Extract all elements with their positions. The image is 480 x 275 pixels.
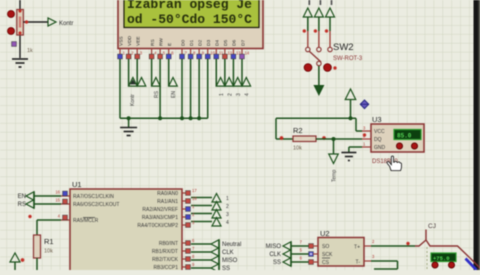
svg-text:RA6/OSC2/CLKOUT: RA6/OSC2/CLKOUT: [73, 202, 119, 208]
svg-text:RA2/AN2/VREF: RA2/AN2/VREF: [142, 207, 178, 213]
svg-text:16: 16: [55, 190, 60, 195]
svg-text:SW-ROT-3: SW-ROT-3: [333, 56, 363, 62]
svg-text:2: 2: [226, 204, 229, 210]
svg-text:VEE: VEE: [136, 36, 142, 46]
svg-text:15: 15: [55, 198, 60, 203]
svg-text:85.0: 85.0: [397, 133, 412, 140]
svg-text:D7: D7: [240, 40, 246, 46]
svg-text:RA0/AN0: RA0/AN0: [157, 191, 178, 197]
svg-text:4: 4: [226, 220, 229, 226]
svg-text:D2: D2: [197, 40, 203, 46]
svg-text:CJ: CJ: [428, 223, 436, 230]
svg-text:17: 17: [192, 188, 197, 193]
svg-text:18: 18: [192, 196, 197, 201]
svg-text:GND: GND: [374, 145, 386, 151]
svg-text:14: 14: [245, 51, 250, 56]
svg-text:RS: RS: [150, 39, 156, 46]
svg-text:RA3/AN3/CMP1: RA3/AN3/CMP1: [142, 215, 178, 221]
svg-text:10k: 10k: [293, 146, 302, 152]
svg-text:1: 1: [219, 93, 225, 96]
svg-text:RA4/T0CKI/CMP2: RA4/T0CKI/CMP2: [137, 223, 178, 229]
svg-text:RS: RS: [18, 202, 26, 208]
svg-text:RW: RW: [158, 38, 164, 46]
svg-text:RA1/AN1: RA1/AN1: [157, 199, 178, 205]
svg-text:VSS: VSS: [118, 36, 124, 46]
svg-text:2: 2: [227, 93, 233, 96]
svg-text:SO: SO: [322, 244, 329, 250]
svg-text:CLK: CLK: [269, 252, 281, 258]
svg-text:D0: D0: [180, 40, 186, 46]
svg-text:+75.0: +75.0: [433, 255, 450, 262]
svg-text:D6: D6: [232, 40, 238, 46]
svg-text:RB1/RX/DT: RB1/RX/DT: [152, 249, 178, 255]
svg-text:3: 3: [226, 212, 229, 218]
svg-text:3: 3: [236, 93, 242, 96]
svg-text:SCK: SCK: [322, 252, 333, 258]
svg-text:SW2: SW2: [333, 42, 354, 53]
svg-text:RB2/TX/CK: RB2/TX/CK: [152, 257, 179, 263]
svg-text:Izabran opseg Je: Izabran opseg Je: [127, 0, 252, 12]
svg-text:VCC: VCC: [374, 129, 385, 135]
svg-text:D4: D4: [215, 40, 221, 46]
svg-text:T+: T+: [354, 245, 360, 251]
svg-text:D1: D1: [189, 40, 195, 46]
svg-text:10k: 10k: [44, 249, 53, 255]
svg-text:SS: SS: [273, 260, 281, 266]
svg-text:EN: EN: [171, 91, 177, 98]
svg-text:MISO: MISO: [222, 258, 238, 264]
svg-text:RB0/INT: RB0/INT: [159, 241, 178, 247]
svg-text:Kontr: Kontr: [130, 94, 136, 106]
svg-text:RA5/MCLR: RA5/MCLR: [73, 218, 99, 224]
svg-text:D5: D5: [223, 40, 229, 46]
svg-text:Kontr: Kontr: [59, 21, 73, 27]
svg-text:RB3/CCP1: RB3/CCP1: [154, 265, 179, 270]
svg-text:RA7/OSC1/CLKIN: RA7/OSC1/CLKIN: [73, 194, 114, 200]
svg-text:D3: D3: [206, 40, 212, 46]
svg-text:1k: 1k: [27, 48, 33, 54]
svg-text:CS: CS: [322, 260, 330, 266]
svg-text:od -50°Cdo 150°C: od -50°Cdo 150°C: [127, 12, 252, 27]
svg-text:RS: RS: [154, 90, 160, 98]
svg-text:CLK: CLK: [222, 250, 234, 256]
svg-text:SS: SS: [222, 266, 230, 270]
svg-text:R1: R1: [44, 237, 54, 246]
svg-text:Temp: Temp: [332, 170, 338, 182]
svg-text:R2: R2: [293, 126, 303, 135]
svg-text:1: 1: [226, 196, 229, 202]
svg-text:MISO: MISO: [266, 244, 282, 250]
svg-text:DQ: DQ: [374, 137, 382, 143]
svg-text:VDD: VDD: [127, 35, 133, 46]
svg-text:EN: EN: [18, 194, 26, 200]
svg-text:Neutral: Neutral: [222, 242, 241, 248]
svg-text:U3: U3: [372, 115, 382, 124]
svg-text:U2: U2: [320, 229, 330, 238]
svg-text:4: 4: [244, 93, 250, 96]
svg-text:T-: T-: [356, 260, 361, 266]
svg-text:U1: U1: [72, 180, 82, 189]
svg-text:E: E: [167, 43, 173, 46]
